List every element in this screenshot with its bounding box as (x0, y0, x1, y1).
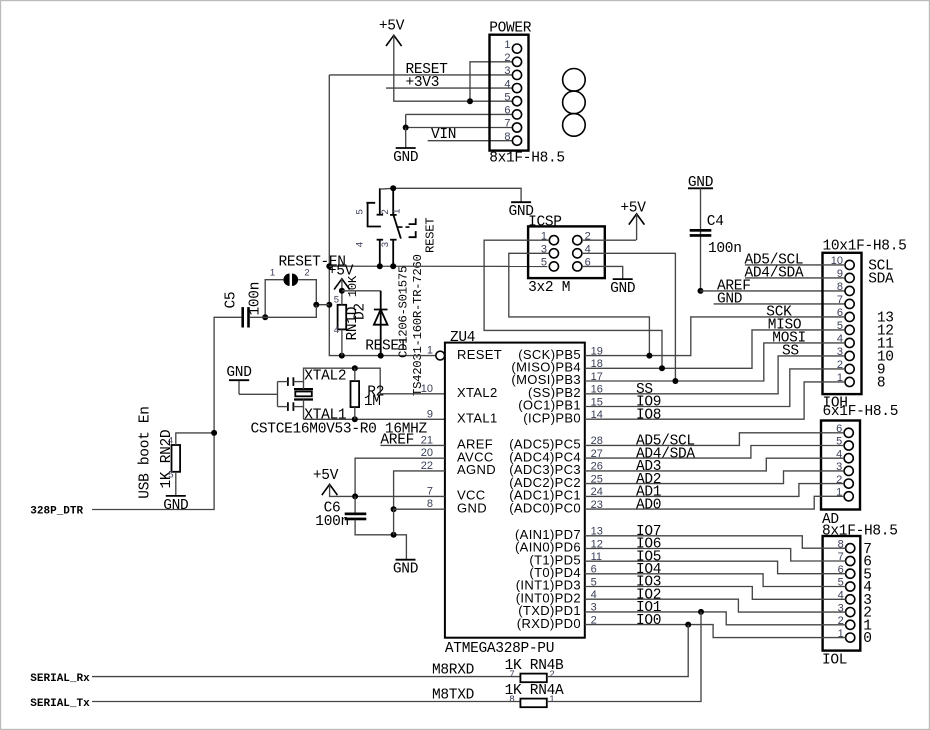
junction switch pin3 / RESET (390, 263, 396, 269)
svg-text:100n: 100n (315, 514, 349, 530)
+5V supply symbol (top left) (379, 19, 405, 47)
junction +5V / pin2 branch (467, 98, 473, 104)
svg-text:TS42031-160R-TR-7260: TS42031-160R-TR-7260 (411, 254, 425, 396)
IOH pin 9 (845, 273, 854, 282)
svg-text:5: 5 (334, 294, 339, 305)
ground (resonator) (229, 379, 249, 381)
svg-text:IOL: IOL (822, 653, 847, 669)
wire ground riser (resonator) (238, 380, 240, 394)
junction D2 anode / RESET wire (378, 353, 384, 359)
junction pad1 / C5 wire (262, 314, 268, 320)
IOL pin 3 (846, 608, 855, 617)
mounting hole pads (3 circles) (563, 69, 586, 137)
svg-text:4: 4 (355, 242, 366, 247)
connector IOH 10x1F-H8.5 (823, 239, 907, 421)
svg-text:GND: GND (457, 500, 487, 515)
junction switch pin1/pin2 (390, 185, 396, 191)
wire RESET-EN pad2 to RESET (298, 280, 329, 305)
wire ICSP pin 6 to ground (582, 266, 623, 279)
svg-text:SDA: SDA (868, 272, 894, 288)
wire D2 cathode to +5V branch (342, 290, 381, 292)
svg-text:1: 1 (270, 267, 275, 278)
wire switch pins 1/2 to ground (380, 188, 521, 202)
wire SERIAL_Rx to RN4B (92, 676, 520, 678)
svg-text:5: 5 (504, 91, 510, 103)
IOH pin 3 (845, 351, 854, 360)
svg-text:C4: C4 (707, 214, 724, 230)
IOH pin 8 (845, 286, 854, 295)
ground (reset switch) (508, 202, 533, 220)
wire net VIN to POWER pin 8 (428, 140, 513, 142)
svg-text:9: 9 (427, 408, 433, 420)
IOH pin 4 (845, 338, 854, 347)
svg-text:0: 0 (863, 631, 871, 647)
svg-text:XTAL1: XTAL1 (457, 411, 498, 426)
wire C5 right to RESET-EN branch (250, 305, 316, 318)
wire IO0: PD0 to IOL pin 1 (585, 625, 846, 638)
wire AREF to IOH pin 8 (701, 290, 846, 292)
svg-text:USB boot En: USB boot En (137, 406, 153, 498)
svg-text:2: 2 (304, 267, 309, 278)
ICSP pin 4 (573, 249, 582, 258)
wire net +3V3 to POWER pin 4 (386, 87, 512, 89)
svg-text:4: 4 (168, 436, 173, 447)
wire C5 left to 328P_DTR (92, 317, 241, 509)
AD pin 5 (844, 441, 853, 450)
connector POWER 8x1F-H8.5 (489, 21, 565, 167)
pushbutton RESET (TS42031-160R-TR-7260) (355, 188, 438, 396)
IOL pin 8 (846, 544, 855, 553)
wire +5V to ZU4 VCC pin 7 (330, 484, 445, 496)
ground (C4) (688, 175, 713, 191)
svg-text:GND: GND (163, 498, 188, 514)
wire ICSP pin 2 to +5V (582, 239, 636, 241)
IOH pin 2 (845, 364, 854, 373)
svg-text:M8TXD: M8TXD (432, 687, 474, 703)
wire IO9: PB1 to IOH pin 2 (585, 369, 845, 407)
wire IO5: PD5 to IOL pin 6 (585, 561, 846, 574)
svg-text:7: 7 (504, 118, 510, 130)
svg-text:+5V: +5V (313, 468, 339, 484)
wire +5V to POWER pin 5 (394, 35, 513, 101)
junction MOSI / ICSP branch (672, 378, 678, 384)
ICSP pin 3 (549, 249, 558, 258)
svg-text:XTAL2: XTAL2 (457, 385, 498, 400)
wire MOSI: ICSP pin 4 down to PB3 (582, 253, 675, 381)
svg-text:4: 4 (334, 325, 339, 336)
IOH pin 6 (845, 312, 854, 321)
wire RN4A to IO1 (547, 612, 701, 702)
wire AD3: PC3 to AD pin 4 (585, 458, 844, 471)
svg-text:22: 22 (421, 460, 433, 472)
junction RN1D top / +5V / D2 branch (339, 288, 345, 294)
wire SS: PB2 to IOH pin 3 (585, 356, 845, 394)
wire RESET-EN pad1 down (265, 280, 283, 318)
capacitor C5 (241, 307, 249, 327)
connector IOL 8x1F-H8.5 (822, 536, 860, 669)
junction switch pin4 / RESET (377, 263, 383, 269)
POWER pin 1 (512, 44, 521, 53)
ground (ICSP pin6) (610, 279, 635, 297)
junction IO0 / RN4B branch (685, 622, 691, 628)
svg-text:GND: GND (226, 365, 251, 381)
svg-text:6x1F-H8.5: 6x1F-H8.5 (823, 404, 899, 420)
junction R2 top / XTAL2 (352, 365, 358, 371)
junction C4 / AREF (698, 288, 704, 294)
junction RESET-EN pad2 / C5 branch (313, 302, 319, 308)
AD pin 1 (844, 492, 853, 501)
junction RESET vertical / RESET-EN branch (326, 302, 332, 308)
junction RN2D / DTR line (211, 430, 217, 436)
svg-text:5: 5 (355, 209, 366, 214)
svg-text:GND: GND (393, 150, 418, 166)
wire C4 vertical (700, 188, 702, 291)
wire AD2: PC2 to AD pin 3 (585, 471, 844, 484)
svg-text:AGND: AGND (457, 462, 496, 477)
svg-text:2: 2 (549, 669, 554, 680)
svg-text:+5V: +5V (620, 200, 646, 216)
solder jumper RESET-EN (270, 255, 346, 286)
IOH pin 7 (845, 299, 854, 308)
wire IO6: PD6 to IOL pin 7 (585, 549, 846, 562)
svg-text:8: 8 (877, 376, 885, 392)
junction RN1D bottom / RESET wire (339, 353, 345, 359)
wire AD4/SDA stub to IOH pin 9 (745, 277, 845, 279)
ground (RN2D) (163, 496, 188, 514)
svg-text:GND: GND (717, 292, 742, 308)
svg-text:1M: 1M (364, 394, 381, 410)
ICSP pin 2 (573, 236, 582, 245)
wire AD5/SCL stub to IOH pin 10 (745, 264, 845, 266)
svg-text:21: 21 (421, 434, 433, 446)
POWER pin 2 (512, 57, 521, 66)
wire RN2D top to DTR line (176, 433, 214, 445)
svg-text:10: 10 (421, 383, 433, 395)
svg-text:SERIAL_Rx: SERIAL_Rx (30, 673, 90, 685)
POWER pin 3 (512, 70, 521, 79)
svg-text:1: 1 (549, 694, 554, 705)
svg-text:D2: D2 (353, 303, 369, 320)
capacitor C4 plates (690, 229, 712, 237)
svg-text:(RXD)PD0: (RXD)PD0 (517, 616, 581, 631)
connector AD 6x1F-H8.5 (821, 421, 898, 540)
IC ZU4 ATMEGA328P-PU (436, 330, 585, 657)
side labels arduino pins 7..0 (863, 542, 871, 647)
IOL pin 2 (846, 620, 855, 629)
svg-text:3x2 M: 3x2 M (528, 280, 570, 296)
POWER pin 8 (512, 136, 521, 145)
svg-text:GND: GND (610, 281, 635, 297)
svg-text:RESET: RESET (424, 218, 438, 253)
svg-text:(ICP)PB0: (ICP)PB0 (523, 410, 581, 425)
wire R2 bottom pin (354, 407, 356, 419)
wire RN1D top pin (341, 291, 343, 305)
wire POWER pin 7 (406, 127, 513, 129)
wire IO7: PD7 to IOL pin 8 (585, 536, 846, 548)
svg-text:328P_DTR: 328P_DTR (30, 506, 83, 518)
svg-text:1: 1 (504, 39, 510, 51)
svg-text:2: 2 (380, 209, 391, 214)
IOL pin 6 (846, 569, 855, 578)
ICSP pin 1 (549, 236, 558, 245)
wire RN4B to IO0 (547, 625, 688, 677)
ICSP pin 6 (573, 262, 582, 271)
IOH pin 5 (845, 325, 854, 334)
wire AVCC to VCC rail (355, 458, 445, 496)
svg-text:2: 2 (504, 52, 510, 64)
svg-text:100n: 100n (708, 241, 742, 257)
wire C6 bottom to ground (355, 520, 406, 560)
ground (POWER header) (393, 148, 418, 166)
wire MISO: PB4 to IOH pin 5 (585, 330, 845, 368)
wire +5V branch to POWER pin 2 (470, 62, 512, 101)
svg-text:100n: 100n (248, 282, 264, 316)
svg-text:(ADC0)PC0: (ADC0)PC0 (509, 500, 581, 515)
wire XTAL1 to ZU4 pin 9 (304, 418, 445, 420)
POWER pin 7 (512, 123, 521, 132)
wire AD1: PC1 to AD pin 2 (585, 484, 844, 497)
wire AGND to GND rail (394, 471, 445, 509)
svg-text:7: 7 (427, 485, 433, 497)
junction IO1 / RN4A branch (698, 609, 704, 615)
resistor R2 body (351, 381, 360, 407)
junction GND pins 6/7 (403, 125, 409, 131)
wire RN2D bottom to ground (175, 472, 177, 496)
svg-text:+5V: +5V (379, 19, 405, 35)
IOH pin 1 (845, 377, 854, 386)
ICSP pin 5 (549, 262, 558, 271)
svg-text:10K: 10K (346, 275, 360, 297)
POWER pin 6 (512, 110, 521, 119)
svg-text:XTAL1: XTAL1 (304, 408, 346, 424)
svg-text:8x1F-H8.5: 8x1F-H8.5 (489, 151, 565, 167)
wire SCK: ICSP pin 3 to PB5 (509, 253, 650, 355)
svg-text:8: 8 (427, 498, 433, 510)
IOL pin 4 (846, 595, 855, 604)
svg-text:1: 1 (392, 209, 403, 214)
svg-text:XTAL2: XTAL2 (304, 369, 346, 385)
+5V supply symbol (ICSP) (620, 200, 646, 240)
wire SCK: PB5 to IOH pin 6 (585, 317, 845, 356)
junction C6 ground / AGND branch (391, 532, 397, 538)
+5V supply symbol (RN1D pullup) (328, 264, 354, 291)
wire AD4: PC4 to AD pin 5 (585, 446, 844, 459)
svg-text:RESET: RESET (457, 347, 502, 362)
wire IO8: PB0 to IOH pin 1 (585, 382, 845, 419)
svg-text:IO8: IO8 (636, 407, 661, 423)
junction MISO / ICSP branch (659, 365, 665, 371)
wire MISO: ICSP pin 1 to PB4 (484, 240, 662, 368)
wire resonator center tap to ground (239, 393, 278, 395)
AD pin 4 (844, 454, 853, 463)
connector ICSP 3x2 M (528, 215, 605, 296)
svg-text:AD0: AD0 (636, 497, 661, 513)
svg-text:+3V3: +3V3 (406, 75, 440, 91)
wire AD5: PC5 to AD pin 6 (585, 433, 844, 446)
junction SCK / ICSP branch (646, 353, 652, 359)
svg-text:20: 20 (421, 447, 433, 459)
ground (C6/AGND) (393, 560, 418, 578)
resistor RN1D body (338, 305, 347, 330)
svg-text:M8RXD: M8RXD (432, 662, 474, 678)
svg-text:GND: GND (393, 562, 418, 578)
svg-text:3: 3 (504, 65, 510, 77)
AD pin 3 (844, 466, 853, 475)
svg-text:AD4/SDA: AD4/SDA (745, 266, 804, 282)
svg-text:1: 1 (427, 345, 433, 357)
wire IO3: PD3 to IOL pin 4 (585, 587, 846, 600)
resistor RN4B body (520, 674, 546, 683)
IOL pin 5 (846, 582, 855, 591)
svg-text:ATMEGA328P-PU: ATMEGA328P-PU (445, 641, 554, 657)
svg-text:6: 6 (504, 105, 510, 117)
svg-text:AREF: AREF (380, 432, 414, 448)
wire net RESET vertical to ZU4 RESET pin (329, 75, 436, 356)
IOL pin 1 (846, 633, 855, 642)
wire ZU4 GND pin 8 down (394, 509, 445, 535)
junction AVCC / VCC / C6 (352, 493, 358, 499)
+5V supply symbol (VCC) (313, 468, 339, 495)
svg-text:IO0: IO0 (636, 613, 661, 629)
wire MOSI: PB3 to IOH pin 4 (585, 343, 845, 381)
resistor RN2D body (172, 445, 181, 472)
diode D2 CD1206-S01575 (353, 266, 411, 358)
svg-text:8: 8 (504, 131, 510, 143)
wire AD0: PC0 to AD pin 1 (585, 496, 844, 509)
wire AREF stub (ZU4 pin 21) (380, 444, 445, 446)
svg-text:4: 4 (504, 78, 510, 90)
wire R2 top pin (354, 368, 356, 381)
svg-text:C5: C5 (223, 292, 239, 309)
D2 anode lead (380, 310, 382, 356)
svg-text:7: 7 (837, 294, 843, 306)
wire RESET to ICSP pin 5 (329, 265, 547, 267)
svg-text:SS: SS (782, 344, 799, 360)
D2 cathode lead (380, 291, 382, 310)
wire XTAL2 to ZU4 pin 10 (304, 368, 445, 394)
junction RESET vertical / ICSP5 wire (326, 263, 332, 269)
IOL pin 7 (846, 556, 855, 565)
wire down to ground (405, 128, 407, 149)
POWER pin 4 (512, 84, 521, 93)
capacitor C6 plates (345, 513, 367, 521)
svg-text:7: 7 (509, 669, 514, 680)
wire IO2: PD2 to IOL pin 3 (585, 599, 846, 612)
svg-text:SERIAL_Tx: SERIAL_Tx (30, 698, 90, 710)
svg-text:5: 5 (541, 257, 547, 269)
resistor RN4A body (520, 699, 546, 708)
wire C6 top pin (354, 496, 356, 513)
wire net RESET to POWER pin 3 (329, 74, 512, 76)
wire pin6 down to pin7 net (405, 114, 407, 127)
wire IO4: PD4 to IOL pin 5 (585, 574, 846, 587)
ZU4 RESET pin inversion circle (436, 351, 445, 360)
wire GND stub to IOH pin 7 (714, 303, 845, 305)
svg-text:8: 8 (509, 694, 514, 705)
junction R2 bottom / XTAL1 (352, 416, 358, 422)
svg-text:5: 5 (168, 470, 173, 481)
svg-text:8: 8 (837, 281, 843, 293)
AD pin 6 (844, 428, 853, 437)
svg-text:ICSP: ICSP (528, 215, 562, 231)
IOH pin 10 (845, 260, 854, 269)
svg-text:CD1206-S01575: CD1206-S01575 (397, 266, 411, 358)
AD pin 2 (844, 479, 853, 488)
junction AGND / GND pin (391, 506, 397, 512)
side labels SCL SDA and arduino pin numbers 13..8 (868, 259, 894, 392)
wire SERIAL_Tx to RN4A (92, 701, 520, 703)
wire IO1: PD1 to IOL pin 2 (585, 612, 846, 625)
svg-text:3: 3 (380, 242, 391, 247)
ceramic resonator XTAL CSTCE16M0V53-R0 16MHZ (278, 377, 314, 419)
wire RN1D bottom pin to RESET (341, 329, 343, 355)
svg-text:VIN: VIN (431, 127, 456, 143)
POWER pin 5 (512, 97, 521, 106)
wire POWER pin 6 (406, 113, 513, 115)
